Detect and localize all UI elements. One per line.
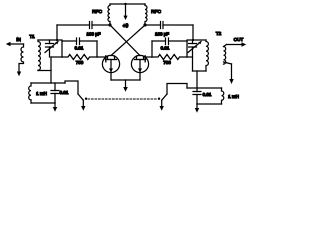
svg-text:RFC: RFC [92, 9, 102, 15]
transformer T2 primary [206, 40, 208, 71]
wire rect right side [96, 41, 98, 57]
wire to switch S1 [65, 81, 78, 94]
wire right quench bottom rail [197, 103, 222, 105]
node right tank tap [192, 39, 194, 41]
resistor R2 700 right [152, 55, 187, 60]
capacitor C5 0.01 right quench [196, 88, 198, 104]
wire emitter rail [111, 79, 140, 81]
wire right tank top rail [187, 39, 206, 41]
wire rect right side right network [186, 41, 188, 57]
wire gate stub Q1 [97, 56, 106, 58]
svg-text:1 mH: 1 mH [36, 91, 47, 96]
wire drop to right tank [192, 25, 194, 40]
inductor L2 1 mH right [222, 88, 224, 104]
svg-text:IN: IN [16, 37, 21, 42]
ground arrow right quench [196, 104, 198, 108]
supply arrow +9 [125, 4, 127, 16]
capacitor C-tune left (variable) [49, 40, 51, 44]
switch S2 [162, 94, 167, 100]
wire 100pF line left [92, 24, 110, 26]
wire gate stub Q2 [145, 56, 152, 58]
wire var-cap node to quench [50, 57, 52, 83]
transistor Q2 [131, 55, 148, 72]
wire 100pF line right [145, 24, 161, 26]
transformer T1 secondary [38, 40, 40, 71]
wire switch gang dashed link [88, 98, 157, 100]
capacitor C-tune right (variable) [192, 40, 194, 44]
ground arrow T2 secondary [231, 64, 233, 79]
svg-text:0.01: 0.01 [60, 90, 69, 95]
wire left tank bottom rail [38, 69, 51, 71]
wire right tank bottom rail [193, 70, 207, 72]
wire Q1 source to rail [110, 73, 112, 80]
inductor RFC left [108, 4, 110, 25]
wire left quench bottom rail [31, 102, 55, 104]
transistor Q1 [102, 55, 119, 72]
node X2 right [143, 23, 146, 26]
capacitor C2 0.01 left (gate) [62, 40, 97, 42]
arrow OUT [227, 44, 243, 46]
node X1 left [108, 23, 111, 26]
transformer T2 secondary [224, 45, 232, 65]
ground arrow center [125, 80, 127, 87]
node left tank tap [56, 39, 58, 41]
svg-text:T2: T2 [216, 31, 222, 36]
svg-text:1 mH: 1 mH [228, 94, 239, 99]
wire rect left side right network [151, 41, 153, 57]
svg-text:T1: T1 [29, 34, 35, 39]
svg-text:RFC: RFC [151, 9, 161, 15]
ground arrow left quench [54, 103, 56, 107]
wire right quench top rail [187, 87, 222, 89]
svg-text:+9: +9 [123, 24, 129, 30]
inductor L1 1 mH left [29, 83, 31, 103]
ground arrow T1 primary [17, 72, 21, 77]
wire cross-couple X2 to Q1 [111, 25, 145, 56]
svg-text:100 pF: 100 pF [155, 32, 169, 37]
wire left quench top rail [31, 82, 65, 84]
capacitor 100 pF left [90, 22, 93, 29]
node supply tap [124, 3, 126, 5]
wire drop to right quench [196, 71, 198, 88]
resistor R1 700 left [62, 55, 97, 60]
wire var-cap node to rect right [187, 57, 193, 71]
wire drop to left tank [56, 25, 58, 40]
transformer T1 primary [19, 44, 24, 72]
switch S1 [78, 94, 83, 100]
svg-text:OUT: OUT [234, 37, 244, 42]
svg-text:0.01: 0.01 [75, 46, 84, 51]
wire to switch S2 [167, 84, 187, 95]
capacitor 100 pF right [161, 22, 164, 29]
inductor RFC right [145, 4, 147, 25]
svg-text:700: 700 [163, 60, 171, 65]
svg-text:700: 700 [76, 60, 84, 65]
arrow IN [9, 43, 24, 45]
wire Q2 source to rail [139, 73, 141, 80]
capacitor C4 0.01 left quench [54, 83, 56, 103]
svg-text:0.01: 0.01 [203, 92, 212, 97]
wire left tank top rail [38, 39, 62, 41]
capacitor C3 0.01 right (gate) [152, 40, 187, 42]
svg-text:0.01: 0.01 [161, 46, 170, 51]
svg-text:100 pF: 100 pF [86, 32, 100, 37]
wire cross-couple X1 to Q2 [110, 25, 140, 56]
wire top supply rail [110, 3, 145, 5]
wire rect left side [61, 41, 63, 57]
